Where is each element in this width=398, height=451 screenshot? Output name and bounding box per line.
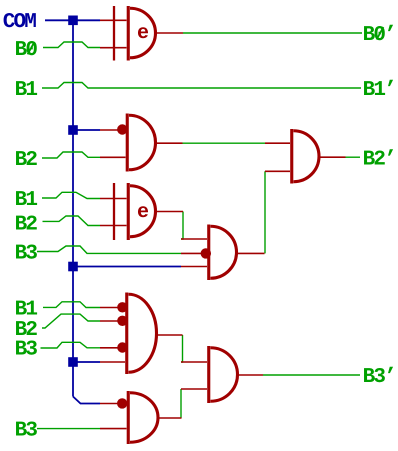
and U8 bbox=[209, 346, 238, 403]
pin U4 input A bbox=[265, 142, 290, 144]
svg-text:B3’: B3’ bbox=[363, 366, 395, 389]
svg-text:B1: B1 bbox=[15, 79, 38, 102]
pin U2 input B bbox=[100, 156, 126, 158]
junction COM top bbox=[68, 16, 78, 26]
pin U6 input A inverted dot bbox=[117, 302, 127, 312]
pin U5 input B bbox=[181, 252, 207, 254]
svg-text:B1’: B1’ bbox=[363, 79, 395, 102]
wire COM horizontal to U1 bbox=[45, 19, 100, 21]
wire U4 output to B2' bbox=[346, 156, 361, 158]
junction COM at U5 branch bbox=[68, 262, 78, 272]
svg-text:B3: B3 bbox=[15, 338, 38, 361]
and U2 bbox=[127, 114, 155, 172]
svg-text:B3: B3 bbox=[15, 420, 38, 443]
pin U1 output bbox=[156, 32, 184, 34]
and U4 bbox=[292, 129, 319, 184]
pin U3 input B bbox=[100, 225, 127, 227]
svg-text:B2: B2 bbox=[15, 149, 38, 172]
pin U6 input B inverted dot bbox=[117, 316, 127, 326]
svg-text:B2’: B2’ bbox=[363, 148, 395, 171]
svg-text:B2: B2 bbox=[15, 213, 38, 236]
wire B3 row2 with hop bbox=[41, 342, 101, 348]
wire U7 output up to U8 bbox=[180, 389, 182, 418]
svg-text:B3: B3 bbox=[15, 243, 38, 266]
pin U2 input A inverted dot bbox=[117, 124, 127, 134]
pin U2 output bbox=[156, 142, 183, 144]
wire COM branch to U2 bbox=[73, 129, 100, 131]
wire B2 row3 with hop bbox=[42, 314, 100, 328]
pin U7 input A inverted dot bbox=[117, 398, 127, 408]
pin U7 input B bbox=[100, 428, 127, 430]
pin U4 input B bbox=[265, 170, 290, 172]
wire B1 row3 with hop bbox=[43, 302, 100, 308]
wire COM branch to U6 bbox=[73, 361, 100, 363]
wire COM vertical bus bbox=[72, 20, 74, 396]
wire COM elbow to U7 bbox=[73, 397, 100, 404]
wire B1 row2 with hop bbox=[42, 192, 100, 198]
pin U7 input A bbox=[100, 403, 127, 405]
pin U5 output bbox=[237, 252, 265, 254]
svg-text:COM: COM bbox=[3, 11, 37, 34]
pin U2 input A bbox=[100, 129, 126, 131]
pin U4 output bbox=[319, 156, 346, 158]
wire U3 output elbow down bbox=[181, 212, 183, 240]
wire U6 output elbow down to U8 bbox=[181, 335, 183, 362]
wire U1 output to B0' bbox=[183, 32, 362, 34]
pin U5 input A bbox=[181, 238, 207, 240]
wire U2 output to U4 bbox=[183, 142, 266, 144]
junction COM at U2 branch bbox=[68, 125, 78, 135]
wire U8 output to B3' bbox=[263, 374, 360, 376]
svg-text:e: e bbox=[137, 22, 149, 45]
wire B0 with hop bbox=[43, 42, 100, 48]
pin U3 input A bbox=[100, 198, 127, 200]
xnor U1 bbox=[114, 6, 155, 61]
and U7 bbox=[128, 391, 158, 444]
pin U8 input B bbox=[181, 388, 207, 390]
pin U5 input B inverted dot bbox=[201, 248, 211, 258]
slash of zero in B0 bbox=[28, 42, 35, 54]
xnor U3 bbox=[114, 183, 156, 240]
pin U3 output bbox=[156, 211, 184, 213]
junction COM at U6 branch bbox=[68, 357, 78, 367]
svg-text:B1: B1 bbox=[15, 189, 38, 212]
pin U7 output bbox=[158, 417, 182, 419]
pin U8 output bbox=[238, 374, 264, 376]
svg-text:e: e bbox=[137, 201, 149, 224]
and U6 bbox=[127, 293, 157, 375]
wire U5 output up to U4 bbox=[264, 171, 266, 253]
pin U6 input D bbox=[100, 361, 125, 363]
pin U6 input C inverted dot bbox=[117, 342, 127, 352]
pin U1 input B bbox=[100, 47, 127, 49]
pin U5 input C bbox=[181, 266, 207, 268]
wire B3 row1 with hop to U5 bbox=[37, 246, 181, 253]
wire B2 row2 with hop bbox=[43, 216, 101, 226]
pin U8 input A bbox=[181, 361, 207, 363]
wire B2 row1 with hop bbox=[42, 152, 100, 158]
wire B1 row1 with hop to B1' bbox=[42, 83, 361, 89]
and U5 bbox=[209, 225, 237, 281]
wire COM branch to U5 bbox=[73, 266, 181, 268]
slash of zero in B0p bbox=[377, 27, 384, 39]
pin U6 input B bbox=[100, 320, 125, 322]
pin U6 input A bbox=[100, 307, 125, 309]
pin U1 input A bbox=[100, 19, 127, 21]
pin U6 output bbox=[157, 334, 183, 336]
wire B3 row3 to U7 bbox=[37, 428, 100, 430]
pin U6 input C bbox=[100, 347, 125, 349]
